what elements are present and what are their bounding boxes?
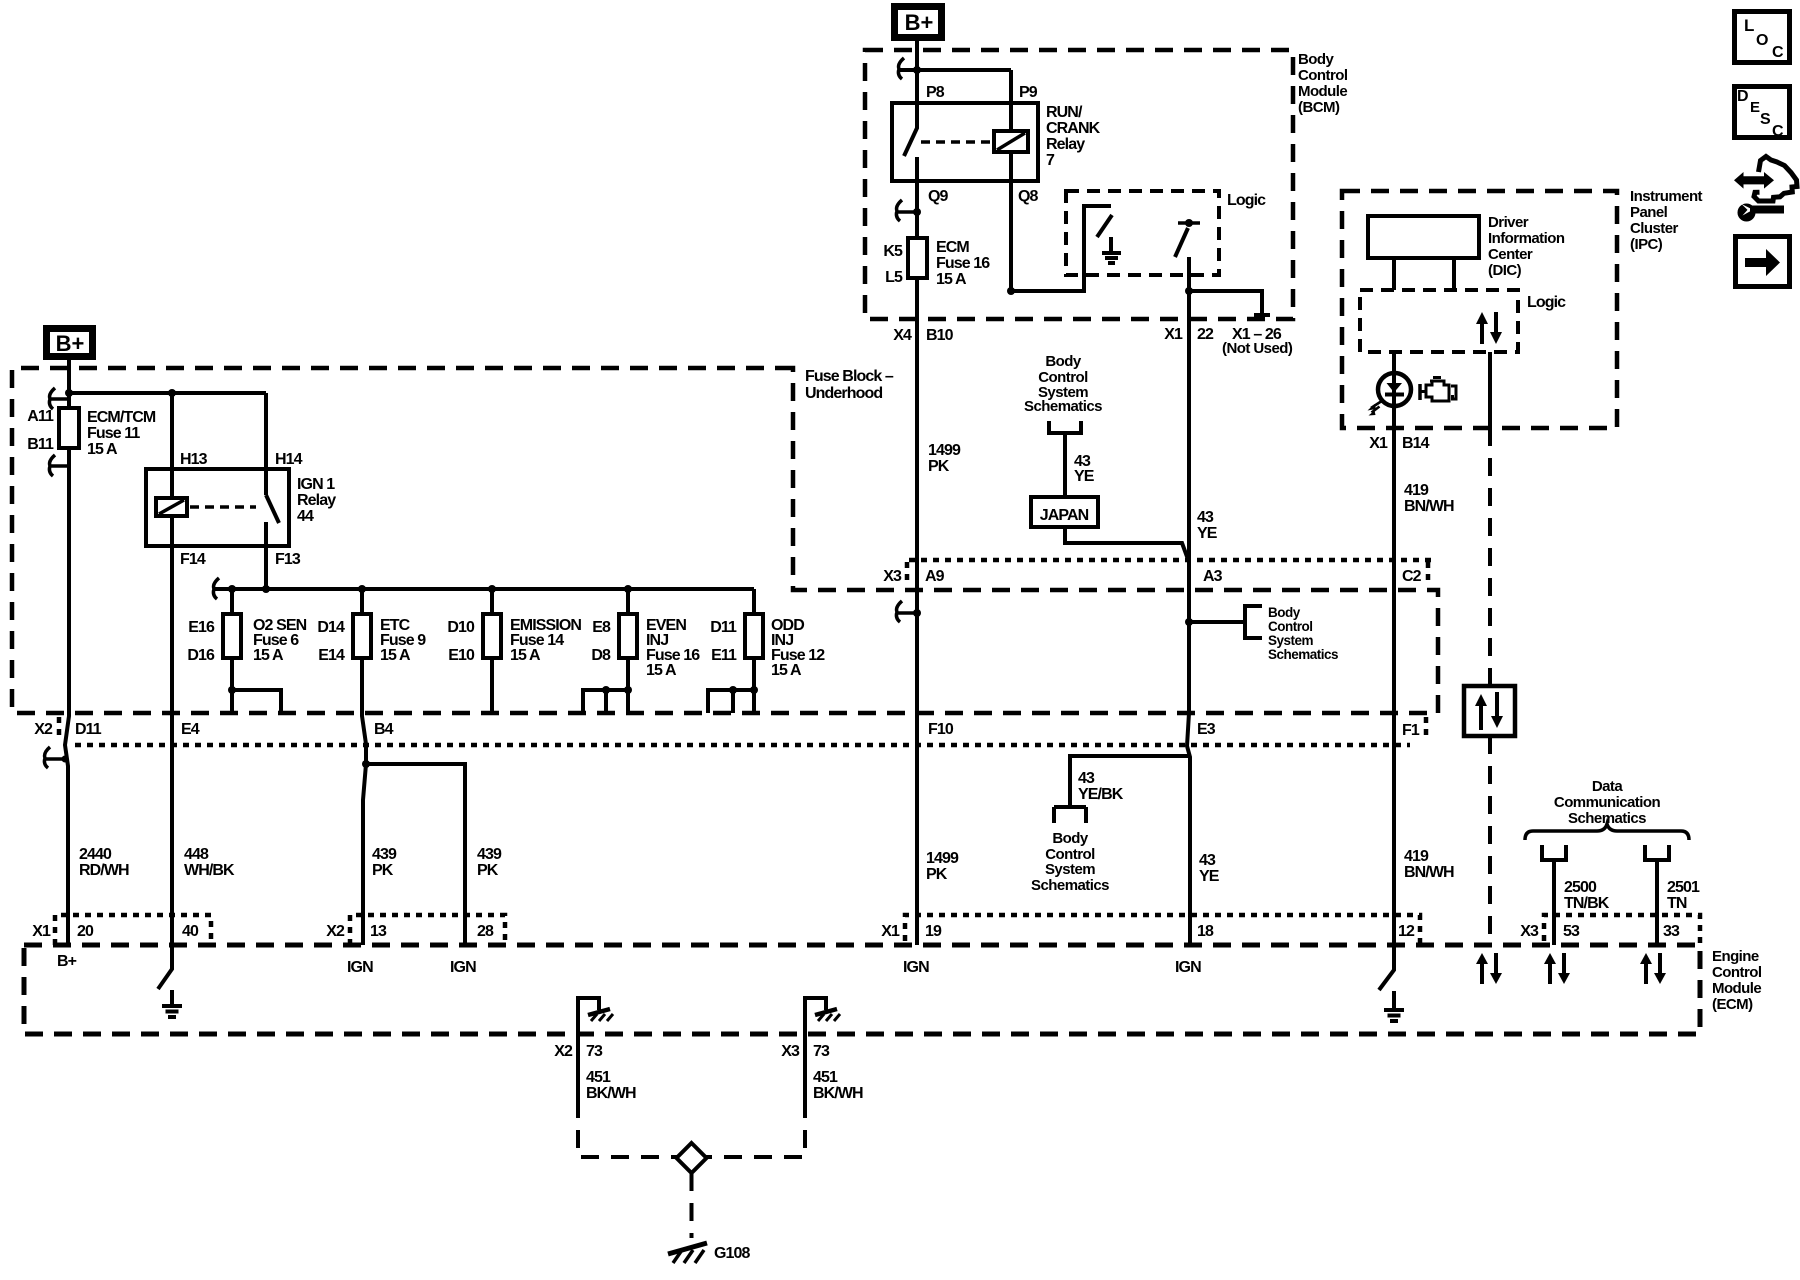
svg-text:(Not Used): (Not Used) [1222,340,1293,357]
svg-text:E3: E3 [1197,721,1216,738]
svg-text:E11: E11 [711,647,737,664]
svg-text:B+: B+ [905,10,934,35]
svg-text:D10: D10 [447,619,475,636]
svg-text:73: 73 [813,1043,830,1060]
serial data arrows (ECM pin 33) [1640,953,1666,984]
svg-text:B14: B14 [1402,435,1430,452]
svg-text:S: S [1760,111,1771,128]
svg-text:Control: Control [1268,619,1313,634]
connector hook at Q9 [896,200,917,221]
serial data arrows (ECM pin 53) [1544,953,1570,984]
serial data arrows (ECM pin row 1) [1476,953,1502,984]
svg-text:20: 20 [77,923,94,940]
ECM dashed outline Engine Control Module [24,945,1700,1034]
svg-text:CRANK: CRANK [1046,120,1101,137]
svg-text:Body: Body [1298,51,1335,68]
svg-text:BN/WH: BN/WH [1404,864,1454,881]
svg-text:A11: A11 [27,408,54,425]
svg-text:Control: Control [1712,964,1762,981]
svg-text:Schematics: Schematics [1031,877,1109,894]
svg-text:15 A: 15 A [380,647,411,664]
svg-text:H14: H14 [275,451,303,468]
svg-text:X1: X1 [1164,326,1183,343]
wire logic output to X1-22 [1187,257,1191,713]
svg-text:X3: X3 [883,568,902,585]
fuse F9 ETC Fuse 9 15A [317,589,465,945]
IPC dashed outline Instrument Panel Cluster [1342,191,1617,428]
svg-text:43: 43 [1078,770,1095,787]
wire 419 BN/WH from B14 to ECM pin 12 [1392,428,1396,945]
svg-text:D8: D8 [591,647,611,664]
svg-text:E16: E16 [188,619,215,636]
JAPAN option box [1031,497,1098,527]
svg-text:53: 53 [1563,923,1580,940]
serial data arrows (IPC logic) [1476,312,1502,344]
svg-text:Module: Module [1712,980,1761,997]
connector hook at left end of fuse rail [213,578,219,599]
wire splice to G108 (dashed) [690,1173,694,1238]
svg-text:419: 419 [1404,482,1429,499]
svg-text:RUN/: RUN/ [1046,104,1083,121]
svg-text:Communication: Communication [1554,794,1661,811]
power symbol B+ (BCM feed) [895,7,942,38]
svg-text:15 A: 15 A [510,647,541,664]
svg-text:IGN: IGN [903,959,929,976]
svg-text:Q8: Q8 [1018,188,1039,205]
connector hook below D11 [44,747,65,768]
svg-text:Fuse 11: Fuse 11 [87,425,140,442]
svg-text:X2: X2 [326,923,345,940]
svg-text:PK: PK [477,862,499,879]
svg-text:JAPAN: JAPAN [1040,507,1089,524]
LED indicator (check engine lamp) [1368,352,1412,428]
relay K7 RUN/CRANK Relay [892,84,1101,181]
svg-text:C2: C2 [1402,568,1422,585]
svg-text:D14: D14 [317,619,345,636]
svg-text:X2: X2 [34,721,53,738]
svg-text:X1: X1 [32,923,51,940]
serial data arrows box [1464,686,1515,736]
connector X2 pins 13 28 (ECM) [326,915,505,945]
svg-text:Center: Center [1488,246,1533,263]
svg-text:448: 448 [184,846,209,863]
svg-text:43: 43 [1197,509,1214,526]
svg-text:BK/WH: BK/WH [586,1085,636,1102]
svg-text:15 A: 15 A [646,662,677,679]
connector X1 pins 20 40 (ECM) [32,915,211,945]
svg-text:PK: PK [928,458,950,475]
svg-text:439: 439 [372,846,397,863]
switch blade to ground in logic [1097,215,1112,237]
svg-text:1499: 1499 [926,850,959,867]
svg-text:44: 44 [297,508,314,525]
svg-text:7: 7 [1046,152,1055,169]
Fuse Block - Underhood dashed outline [12,368,1438,713]
svg-text:28: 28 [477,923,494,940]
node branch to IGN 1 relay [69,391,266,395]
svg-text:ECM: ECM [936,239,969,256]
svg-text:Schematics: Schematics [1024,398,1102,415]
svg-text:Instrument: Instrument [1630,188,1703,205]
wire ignition fuse rail [214,587,754,591]
svg-text:X3: X3 [1520,923,1539,940]
svg-text:2440: 2440 [79,846,112,863]
svg-text:P8: P8 [926,84,945,101]
svg-text:System: System [1045,861,1095,878]
svg-text:A9: A9 [925,568,945,585]
svg-text:(DIC): (DIC) [1488,262,1522,279]
svg-text:73: 73 [586,1043,603,1060]
svg-text:C: C [1772,123,1784,140]
svg-text:B4: B4 [374,721,394,738]
svg-text:Driver: Driver [1488,214,1529,231]
svg-text:Schematics: Schematics [1268,647,1338,662]
svg-text:E: E [1750,99,1760,116]
node Data Communication Schematics [1525,778,1689,840]
svg-text:D: D [1737,88,1749,105]
svg-text:Body: Body [1268,605,1301,620]
svg-text:F13: F13 [275,551,301,568]
svg-text:Body: Body [1045,353,1082,370]
svg-text:(BCM): (BCM) [1298,99,1340,116]
svg-text:22: 22 [1197,326,1214,343]
DIC module Driver Information Center [1368,216,1479,258]
svg-text:(ECM): (ECM) [1712,996,1753,1013]
wire F14 448 circuit down from coil [170,516,174,945]
svg-text:451: 451 [813,1069,838,1086]
fuse F11 ECM/TCM Fuse 11 15A [59,408,79,448]
svg-text:IGN: IGN [450,959,476,976]
connector hook at B+ branch [898,58,904,79]
svg-text:L: L [1744,16,1754,35]
wire F13 down to fuse rail [264,522,268,589]
legend icon vehicle data exchange [1734,157,1797,222]
svg-text:F1: F1 [1402,722,1420,739]
svg-text:B10: B10 [926,327,954,344]
svg-text:X3: X3 [781,1043,800,1060]
fuse F12 ODD INJ Fuse 12 15A [708,589,825,713]
svg-text:YE/BK: YE/BK [1078,786,1124,803]
node Body Control System Schematics feed (top) [1024,353,1102,497]
ground G108 [668,1243,751,1263]
svg-text:P9: P9 [1019,84,1038,101]
connector X3 row (fuse block) [883,560,1437,586]
svg-text:2501: 2501 [1667,879,1700,896]
svg-text:1499: 1499 [928,442,961,459]
svg-text:C: C [1772,44,1784,61]
wire Q8 relay coil to BCM logic [1011,152,1111,291]
svg-text:E4: E4 [181,721,200,738]
svg-text:F10: F10 [928,721,954,738]
node 43 YE to Body Control System Schematics (right) [1185,605,1338,662]
switch (BCM logic output) [1175,219,1200,257]
svg-text:Panel: Panel [1630,204,1668,221]
svg-text:RD/WH: RD/WH [79,862,129,879]
svg-text:X1: X1 [1369,435,1388,452]
fuse F16 EVEN INJ Fuse 16 15A [583,589,700,713]
connector hook below Fuse 11 [49,455,69,476]
svg-text:B+: B+ [57,953,77,970]
node P8/P9 branch [899,70,1011,131]
svg-text:Body: Body [1052,830,1089,847]
svg-text:K5: K5 [883,243,903,260]
fuse BCM ECM Fuse 16 15A [908,238,927,278]
BCM dashed outline Body Control Module [865,50,1293,319]
svg-text:IGN: IGN [1175,959,1201,976]
wire 451 BK/WH right (dashed) [803,1034,807,1103]
svg-text:Relay: Relay [1046,136,1085,153]
svg-text:ECM/TCM: ECM/TCM [87,409,156,426]
svg-text:PK: PK [926,866,948,883]
svg-text:TN: TN [1667,895,1687,912]
connector X1 pins 19 18 12 (ECM) [881,915,1420,945]
svg-text:System: System [1268,633,1314,648]
svg-text:40: 40 [182,923,199,940]
svg-text:X1: X1 [881,923,900,940]
svg-text:451: 451 [586,1069,611,1086]
svg-text:WH/BK: WH/BK [184,862,235,879]
svg-text:Underhood: Underhood [805,385,882,402]
svg-text:Logic: Logic [1227,192,1266,209]
fuse F14 EMISSION Fuse 14 15A [447,589,581,713]
svg-text:G108: G108 [714,1245,751,1262]
relay K44 IGN 1 Relay [146,469,336,546]
svg-text:Relay: Relay [297,492,336,509]
svg-text:Cluster: Cluster [1630,220,1679,237]
wire DIC legs [1394,258,1454,290]
svg-text:A3: A3 [1203,568,1223,585]
splice S-diamond [677,1143,707,1173]
legend icon DESC [1735,87,1790,141]
connector fork 2500 TN/BK [1540,845,1610,945]
svg-text:Information: Information [1488,230,1565,247]
svg-text:D11: D11 [75,721,102,738]
svg-text:B11: B11 [27,436,54,453]
svg-text:419: 419 [1404,848,1429,865]
svg-text:15 A: 15 A [936,271,967,288]
connector X3 pins 53 33 (ECM) [1520,915,1700,945]
ground (BCM logic) [1102,237,1121,263]
svg-text:Q9: Q9 [928,188,949,205]
svg-text:18: 18 [1197,923,1214,940]
svg-text:33: 33 [1663,923,1680,940]
svg-text:YE: YE [1197,525,1218,542]
svg-text:(IPC): (IPC) [1630,236,1663,253]
power symbol B+ (left battery feed) [47,329,93,357]
svg-text:43: 43 [1199,852,1216,869]
fuse F6 O2 SEN Fuse 6 15A [187,589,306,713]
svg-text:2500: 2500 [1564,879,1597,896]
check engine icon [1420,378,1456,402]
switch and ground (pin 12 inside ECM) [1379,945,1404,1021]
wire B+ into BCM [915,41,919,103]
svg-text:E10: E10 [448,647,475,664]
svg-text:BK/WH: BK/WH [813,1085,863,1102]
BCM Logic dashed box [1066,191,1219,275]
wire B+ to ECM/TCM Fuse 11 [65,360,69,945]
svg-text:H13: H13 [180,451,208,468]
svg-text:X4: X4 [893,327,912,344]
wire JAPAN to 43 YE node [1065,527,1189,562]
connector hook below A9 [896,601,917,622]
wire H14 to relay switch [264,393,268,495]
wire stub X1-26 not used [1189,291,1270,315]
IPC Logic dashed box [1360,290,1518,352]
svg-text:E8: E8 [592,619,611,636]
svg-text:Fuse Block –: Fuse Block – [805,368,894,385]
svg-text:12: 12 [1398,923,1415,940]
wire H13 to relay coil [170,393,174,498]
legend icon LOC [1735,12,1790,63]
wire Q9 down through ECM Fuse 16 to X4/B10 [915,181,919,945]
ground stub X2-73 (ECM internal) [554,998,636,1102]
svg-text:15 A: 15 A [87,441,118,458]
svg-text:Logic: Logic [1527,294,1566,311]
svg-text:15 A: 15 A [253,647,284,664]
svg-text:E14: E14 [318,647,345,664]
svg-text:15 A: 15 A [771,662,802,679]
switch and ground (pin 40 inside ECM) [158,945,182,1017]
svg-text:IGN 1: IGN 1 [297,476,335,493]
svg-text:B+: B+ [56,331,85,356]
node 43 YE/BK branch to Body Control System Schematics (lower) [1031,713,1190,945]
svg-text:YE: YE [1199,868,1220,885]
svg-text:439: 439 [477,846,502,863]
svg-text:L5: L5 [885,269,903,286]
connector X2 row (fuse block bottom) [34,717,1426,745]
svg-text:Data: Data [1592,778,1624,795]
svg-text:Control: Control [1298,67,1348,84]
svg-text:F14: F14 [180,551,206,568]
svg-text:PK: PK [372,862,394,879]
ground stub X3-73 (ECM internal) [781,998,863,1102]
svg-text:X2: X2 [554,1043,573,1060]
svg-text:Fuse 16: Fuse 16 [936,255,990,272]
svg-text:13: 13 [370,923,387,940]
wire 451 BK/WH left (dashed) [576,1034,580,1103]
wire logic to serial data line [1488,352,1492,428]
svg-text:TN/BK: TN/BK [1564,895,1610,912]
legend icon forward arrow [1736,237,1790,287]
svg-text:BN/WH: BN/WH [1404,498,1454,515]
svg-text:19: 19 [925,923,942,940]
svg-text:D16: D16 [187,647,215,664]
svg-text:IGN: IGN [347,959,373,976]
svg-text:YE: YE [1074,468,1095,485]
svg-text:O: O [1756,32,1768,49]
connector hook above Fuse 11 [49,388,69,409]
svg-text:Engine: Engine [1712,948,1759,965]
svg-text:D11: D11 [710,619,737,636]
serial data dashed wire to ECM [1488,428,1492,945]
svg-text:Module: Module [1298,83,1347,100]
connector fork 2501 TN [1643,845,1700,945]
